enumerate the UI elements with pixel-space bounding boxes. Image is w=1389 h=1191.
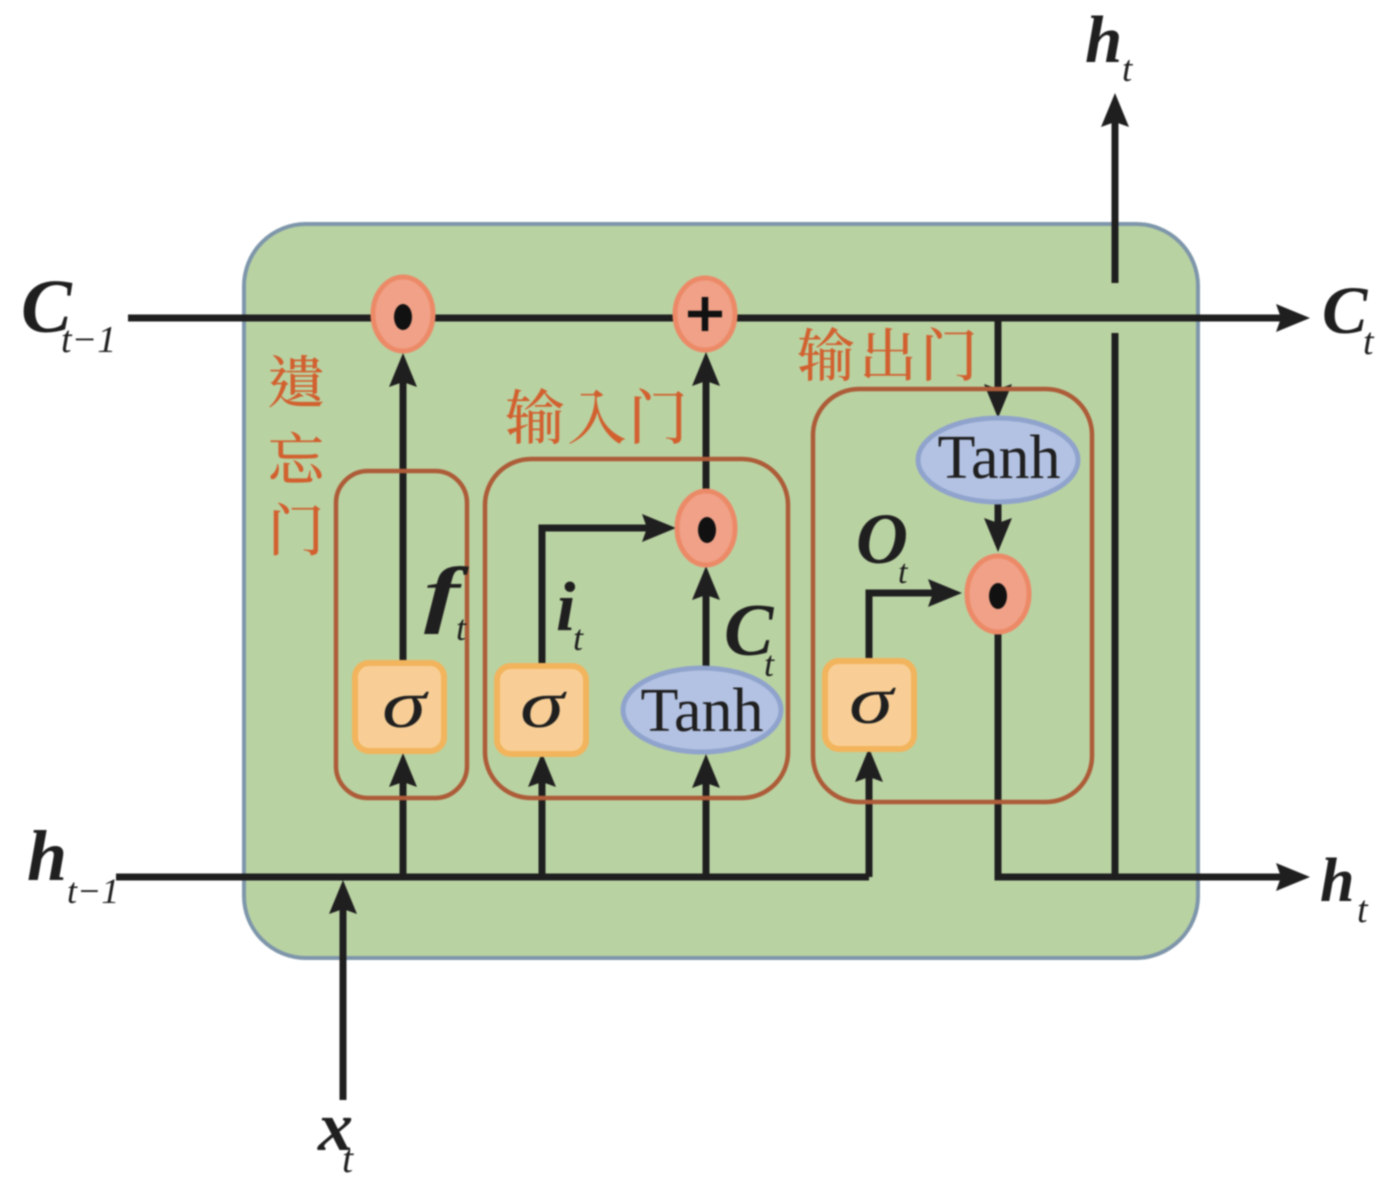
label input gate (Chinese) — [506, 388, 563, 444]
svg-text:h: h — [27, 816, 67, 896]
svg-text:t: t — [898, 554, 909, 591]
wire input multiply to plus — [703, 368, 710, 489]
svg-text:t: t — [1357, 889, 1369, 931]
svg-text:t: t — [573, 618, 584, 658]
wire output Tanh to multiply — [995, 503, 1002, 537]
svg-text:Tanh: Tanh — [937, 424, 1060, 492]
svg-text:C: C — [1322, 272, 1368, 348]
input sigma box — [497, 666, 586, 754]
wire output multiply to h_t output — [995, 632, 1287, 877]
input gate outline — [485, 459, 788, 798]
input multiply node — [677, 491, 735, 565]
wire forget sigma to multiply — [400, 368, 407, 663]
wire output sigma elbow to multiply — [869, 593, 938, 661]
svg-text:t: t — [1363, 321, 1375, 363]
svg-text:t−1: t−1 — [61, 319, 116, 361]
wire cell-state drop to output Tanh — [995, 320, 1002, 402]
wire cell-state C line — [128, 315, 1286, 322]
svg-text:t: t — [1122, 49, 1134, 90]
plus node — [675, 278, 735, 350]
output sigma box — [825, 661, 914, 749]
svg-text:σ: σ — [382, 666, 429, 742]
svg-text:t: t — [456, 608, 467, 648]
label forget gate (Chinese) — [269, 355, 322, 408]
output gate outline — [813, 389, 1092, 802]
svg-text:Tanh: Tanh — [640, 677, 763, 745]
wire x_t input — [340, 896, 347, 1100]
svg-text:t: t — [342, 1136, 354, 1181]
wire input Tanh to multiply — [703, 582, 710, 668]
wire riser to forget sigma — [400, 768, 407, 877]
wire riser to input sigma — [539, 768, 546, 877]
LSTM cell body — [244, 224, 1198, 958]
wire riser to input Tanh — [703, 768, 710, 877]
svg-text:t: t — [764, 644, 775, 684]
forget multiply node — [373, 277, 433, 351]
svg-text:h: h — [1320, 847, 1354, 915]
svg-text:h: h — [1085, 3, 1122, 77]
wire input sigma elbow to multiply — [542, 528, 652, 669]
svg-text:t−1: t−1 — [67, 871, 119, 911]
wire hidden-state h(t-1) line — [116, 874, 869, 881]
svg-text:σ: σ — [849, 662, 896, 738]
output Tanh ellipse — [918, 418, 1078, 502]
output multiply node — [967, 556, 1029, 632]
forget sigma box — [355, 663, 444, 751]
label output gate (Chinese) — [798, 327, 853, 381]
svg-text:σ: σ — [520, 666, 567, 742]
wire riser to output sigma — [866, 763, 873, 877]
input Tanh ellipse — [623, 668, 781, 752]
forget gate outline — [336, 471, 467, 798]
wire h_t top riser — [1112, 110, 1119, 877]
